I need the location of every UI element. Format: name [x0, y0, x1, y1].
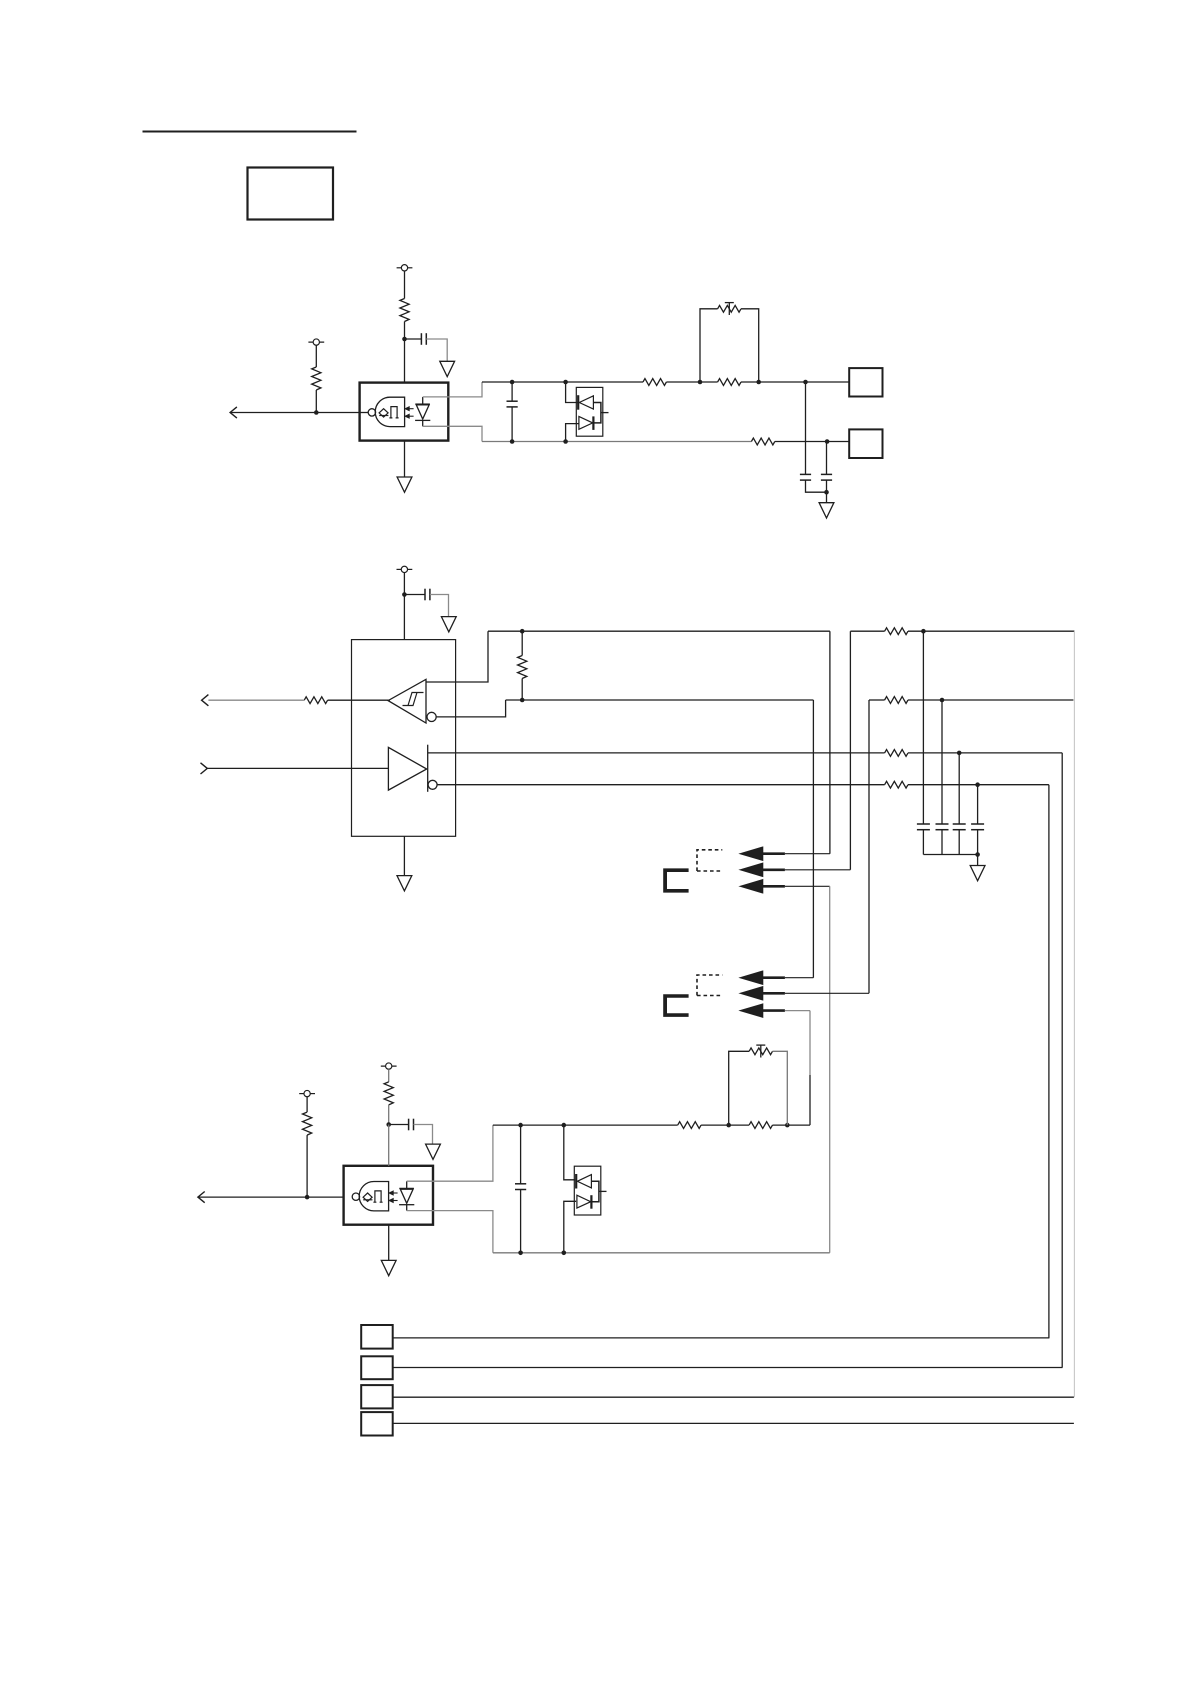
- wire: [701, 1124, 749, 1126]
- opto-isolator U3 box: [344, 1166, 433, 1225]
- LED emitter: [399, 1187, 414, 1189]
- varistor loop wire: [729, 1051, 749, 1125]
- TVS diode D-a: [577, 395, 579, 410]
- node n25: [785, 1123, 790, 1128]
- LED pigtail wire bottom: [407, 1211, 493, 1253]
- light coupling arrows: [391, 1192, 398, 1194]
- resistor R2: [312, 367, 321, 390]
- node n20: [386, 1122, 391, 1127]
- wire vertical VA: [829, 631, 831, 854]
- wire: [388, 1069, 390, 1082]
- varistor RV1: [718, 305, 741, 312]
- wire lower rail B: [493, 1252, 830, 1254]
- light coupling arrows: [407, 408, 414, 410]
- resistor R4: [718, 379, 741, 386]
- wire: [405, 338, 422, 340]
- signal arrow K1-2: [740, 863, 763, 876]
- wire: [521, 679, 523, 701]
- wire: [403, 595, 405, 640]
- node n8: [510, 439, 515, 444]
- TVS diode D-a: [575, 1174, 577, 1189]
- capacitor C5: [424, 589, 426, 601]
- wire: [908, 784, 1049, 786]
- ground: [403, 836, 405, 875]
- wire: [566, 382, 579, 403]
- resistor R14: [678, 1122, 701, 1129]
- capacitor C7: [941, 700, 943, 824]
- wire: [666, 381, 717, 383]
- wire input B jog: [436, 700, 505, 717]
- node n26: [518, 1251, 523, 1256]
- signal arrow K1-1: [740, 847, 763, 860]
- wire to J6: [1061, 753, 1063, 1368]
- resistor R9: [885, 697, 908, 704]
- connector K1 shell: [663, 868, 688, 892]
- schmitt receiver U2a: [388, 679, 426, 723]
- node n4: [563, 380, 568, 385]
- signal arrow K2-2: [740, 987, 763, 1000]
- wire J3 line: [393, 1337, 1050, 1339]
- capacitor C3: [800, 473, 811, 475]
- wire: [208, 699, 304, 701]
- TVS diode D-b: [577, 1195, 591, 1208]
- node n11: [824, 490, 829, 495]
- wire rail A: [482, 381, 643, 383]
- varistor loop wire: [700, 309, 718, 382]
- node n10: [825, 439, 830, 444]
- ground: [819, 503, 834, 518]
- opto-isolator U1 box: [360, 383, 449, 441]
- ground: [440, 361, 455, 376]
- wire: [430, 595, 449, 617]
- receiver output bubble: [427, 712, 436, 721]
- optocoupler detector gate: [375, 397, 404, 426]
- wire: [908, 630, 1074, 632]
- driver buffer U2b: [388, 747, 426, 790]
- wire: [388, 1105, 390, 1125]
- wire J4 line: [393, 1367, 1063, 1369]
- wire: [198, 1196, 344, 1198]
- signal arrow K1-3: [740, 880, 763, 893]
- wire: [404, 322, 406, 340]
- connector pin box J4: [361, 1356, 393, 1379]
- wire: [414, 1125, 433, 1145]
- wire rail B: [482, 441, 751, 443]
- node n5: [698, 380, 703, 385]
- connector K1 dashed body: [697, 850, 722, 871]
- node n21: [305, 1195, 310, 1200]
- resistor R12: [384, 1082, 393, 1105]
- wire input line: [207, 767, 388, 769]
- power terminal P2: [308, 341, 324, 343]
- capacitor C1: [420, 333, 422, 345]
- wire to J5: [1048, 785, 1050, 1338]
- node n9: [563, 439, 568, 444]
- receive line resistor R7: [328, 699, 390, 701]
- title key box: [248, 168, 334, 220]
- LED pigtail wire bottom: [423, 426, 482, 441]
- wire: [230, 412, 360, 414]
- resistor R13: [303, 1112, 312, 1135]
- ground: [404, 441, 406, 477]
- wire: [566, 424, 579, 442]
- wire rail r1 right: [850, 630, 884, 632]
- node n24: [726, 1123, 731, 1128]
- wire: [908, 752, 1062, 754]
- title underline: [143, 131, 357, 133]
- driver output bar: [427, 745, 429, 792]
- wire: [773, 1051, 788, 1125]
- capacitor C8: [958, 753, 960, 824]
- signal arrow in: [201, 763, 208, 774]
- ground: [388, 1225, 390, 1261]
- optocoupler input bubble: [352, 1193, 359, 1200]
- wire vertical VC: [812, 700, 814, 978]
- wire: [741, 309, 759, 382]
- wire: [741, 381, 849, 383]
- resistor R10: [885, 750, 908, 757]
- node n12: [402, 592, 407, 597]
- connector pin box J5b: [361, 1385, 393, 1408]
- node n7: [803, 380, 808, 385]
- wire input A jog: [426, 631, 488, 682]
- wire: [315, 345, 317, 367]
- gate diamond symbol: [379, 409, 388, 417]
- wire: [564, 1125, 575, 1180]
- wire ground bus: [923, 854, 977, 856]
- wire: [826, 492, 828, 503]
- node n23: [562, 1123, 567, 1128]
- signal arrow K2-3: [740, 1004, 763, 1017]
- wire J5 line: [393, 1396, 1074, 1398]
- ground: [970, 866, 985, 881]
- node n19: [975, 852, 980, 857]
- TVS pin 3 stub: [599, 1190, 607, 1192]
- resistor R15: [749, 1122, 772, 1129]
- wire gray vertical to lower rail B: [829, 886, 831, 1253]
- ground: [441, 617, 456, 632]
- gate output stage symbol: [373, 1191, 382, 1202]
- wire: [775, 441, 849, 443]
- LED pigtail wire top: [423, 382, 482, 397]
- wire: [773, 1124, 811, 1126]
- wire: [360, 412, 369, 414]
- wire: [521, 631, 523, 655]
- TVS internal link wire: [591, 1181, 599, 1201]
- node n13: [520, 629, 525, 634]
- gate diamond symbol: [363, 1193, 372, 1201]
- wire gray vertical to lower rail A: [809, 1011, 811, 1075]
- connector pin box J6b: [361, 1412, 393, 1435]
- wire: [403, 573, 405, 595]
- wire: [404, 594, 425, 596]
- wire rail r3: [428, 752, 885, 754]
- power terminal P4: [381, 1065, 397, 1067]
- wire: [306, 1097, 308, 1112]
- LED pigtail wire top: [407, 1125, 493, 1181]
- resistor R1: [400, 299, 409, 322]
- resistor R11: [885, 781, 908, 788]
- resistor R6: [518, 656, 527, 679]
- capacitor C10: [408, 1119, 410, 1131]
- node n6: [756, 380, 761, 385]
- signal arrow out: [230, 407, 237, 418]
- TVS surge absorber box: [576, 387, 603, 436]
- node n27: [562, 1251, 567, 1256]
- wire lower rail A: [493, 1124, 678, 1126]
- node n3: [510, 380, 515, 385]
- node n15: [921, 629, 926, 634]
- gate output stage symbol: [389, 407, 398, 418]
- wire vertical VB: [849, 631, 851, 870]
- LED emitter: [415, 403, 430, 405]
- signal arrow out: [198, 1192, 205, 1203]
- ground: [426, 1144, 441, 1159]
- wire rail r1 left: [488, 630, 830, 632]
- node n18: [975, 782, 980, 787]
- wire: [805, 382, 807, 474]
- connector pin box J1: [849, 368, 882, 396]
- wire J6 line: [393, 1422, 1074, 1424]
- node n1: [402, 337, 407, 342]
- driver-receiver IC U2 box: [352, 640, 456, 837]
- wire vertical VD: [868, 700, 870, 993]
- wire: [404, 339, 406, 383]
- power terminal P5: [299, 1093, 315, 1095]
- node n17: [957, 751, 962, 756]
- wire rail r2 left: [506, 699, 814, 701]
- capacitor C2: [511, 382, 513, 401]
- TVS surge absorber box: [574, 1166, 601, 1215]
- node n2: [314, 410, 319, 415]
- TVS diode D-b: [579, 416, 593, 429]
- wire: [306, 1135, 308, 1197]
- node n22: [518, 1123, 523, 1128]
- power terminal P1: [397, 267, 413, 269]
- capacitor C4: [821, 473, 832, 475]
- TVS pin 3 stub: [601, 412, 609, 414]
- TVS internal link wire: [593, 403, 601, 423]
- signal arrow K2-1: [740, 971, 763, 984]
- hysteresis symbol: [403, 693, 424, 706]
- capacitor C11: [520, 1125, 522, 1184]
- wire: [426, 339, 447, 361]
- wire: [826, 480, 828, 492]
- wire: [908, 699, 1073, 701]
- wire: [977, 855, 979, 866]
- capacitor C9: [977, 785, 979, 824]
- node n14: [520, 698, 525, 703]
- resistor R8: [885, 628, 908, 635]
- connector pin box J2: [849, 429, 882, 458]
- wire: [388, 1125, 390, 1166]
- wire: [389, 1124, 409, 1126]
- wire faint vertical: [1073, 631, 1075, 1397]
- wire: [826, 442, 828, 475]
- resistor R5: [751, 438, 774, 445]
- connector K2 dashed body: [697, 975, 722, 996]
- varistor RV2: [749, 1048, 772, 1055]
- capacitor C6: [922, 631, 924, 824]
- optocoupler detector gate: [359, 1182, 388, 1211]
- resistor R3: [643, 379, 666, 386]
- wire: [564, 1201, 576, 1253]
- power terminal P3: [397, 568, 413, 570]
- wire: [315, 390, 317, 413]
- signal arrow out: [202, 695, 209, 706]
- connector K2 shell: [663, 994, 688, 1017]
- wire: [806, 480, 827, 492]
- connector pin box J3: [361, 1325, 393, 1349]
- optocoupler input bubble: [368, 409, 375, 416]
- wire rail r2 right: [869, 699, 885, 701]
- wire: [404, 271, 406, 299]
- driver output bubble: [428, 780, 437, 789]
- node n16: [940, 698, 945, 703]
- wire rail r4: [437, 784, 885, 786]
